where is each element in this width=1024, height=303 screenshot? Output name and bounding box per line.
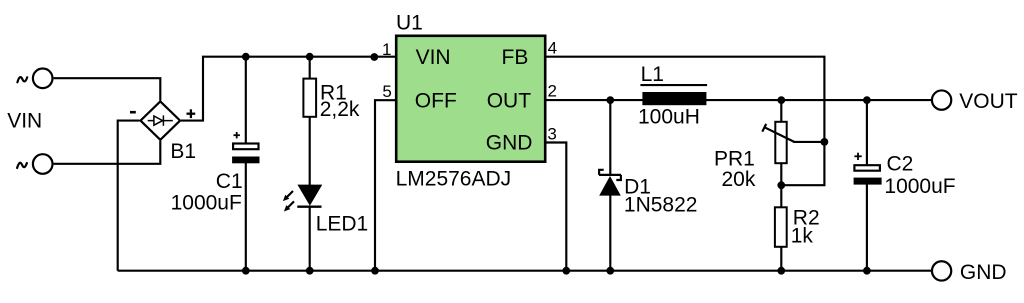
node junction dot PR1 bottom — [777, 181, 785, 189]
label tilde T2 — [17, 163, 27, 168]
wire pin 3 GND to ground rail — [545, 143, 566, 271]
svg-text:OFF: OFF — [415, 89, 457, 112]
node junction dot OUT line C2 — [863, 96, 871, 104]
resistor R1 — [303, 79, 316, 117]
svg-text:20k: 20k — [722, 168, 756, 191]
svg-text:VIN: VIN — [7, 109, 42, 132]
wire C1 branch lower — [245, 163, 247, 271]
inductor L1 — [640, 85, 707, 105]
svg-text:1000uF: 1000uF — [171, 192, 242, 215]
wire R1 branch upper — [309, 57, 311, 79]
capacitor C2 — [854, 153, 882, 185]
node junction dot wiper FB — [821, 138, 829, 146]
wire PR1 wiper link to FB vertical — [793, 141, 824, 143]
node junction dot OUT line PR1 — [777, 96, 785, 104]
wire T2 to bridge bottom corner — [54, 141, 161, 164]
svg-text:LED1: LED1 — [316, 213, 369, 236]
label tilde T1 — [17, 77, 27, 82]
node junction dot rail OFF — [371, 267, 379, 275]
terminal GND — [932, 261, 951, 280]
LED LED1 — [283, 185, 322, 211]
node junction dot top rail C1 — [242, 53, 250, 61]
bridge rectifier B1 — [141, 101, 181, 139]
label plus B1 — [187, 109, 196, 118]
svg-text:1N5822: 1N5822 — [624, 194, 698, 217]
svg-text:100uH: 100uH — [638, 106, 700, 129]
node junction dot rail D1 — [606, 267, 614, 275]
wire ground rail — [118, 270, 932, 272]
svg-text:3: 3 — [547, 125, 556, 144]
wire PR1 bottom to R2 top — [780, 164, 782, 208]
svg-text:4: 4 — [548, 39, 557, 58]
wire D1 cathode to OUT line — [609, 100, 611, 175]
wire C2 top to OUT line — [866, 100, 868, 165]
wire T1 to bridge top corner — [54, 78, 161, 100]
terminal VOUT — [932, 90, 951, 109]
terminal T1 AC input top — [33, 69, 53, 89]
node junction dot rail LED1 — [306, 267, 314, 275]
svg-text:1000uF: 1000uF — [884, 175, 955, 198]
wire pin 4 FB to feedback node — [545, 57, 824, 186]
node junction dot rail C2 — [863, 267, 871, 275]
svg-text:VIN: VIN — [416, 46, 451, 69]
potentiometer PR1 — [762, 122, 794, 163]
wire C1 branch upper — [245, 57, 247, 144]
svg-text:OUT: OUT — [487, 89, 532, 112]
svg-text:FB: FB — [502, 46, 529, 69]
svg-text:C2: C2 — [887, 153, 914, 176]
wire PR1 top to OUT line — [780, 100, 782, 122]
wire C2 bottom to ground rail — [866, 184, 868, 271]
svg-text:2,2k: 2,2k — [320, 98, 360, 121]
svg-text:GND: GND — [486, 132, 533, 155]
terminal T2 AC input bottom — [33, 154, 53, 174]
wire pin 5 OFF to ground rail — [375, 100, 396, 271]
svg-text:U1: U1 — [396, 12, 423, 35]
node junction dot OUT line D1 — [606, 96, 614, 104]
wire pin 2 OUT line to VOUT terminal — [545, 99, 932, 101]
wire R2 bottom to ground rail — [780, 247, 782, 271]
wire bridge minus corner to ground rail — [118, 121, 140, 271]
wire R1 to LED1 — [309, 117, 311, 186]
svg-text:VOUT: VOUT — [959, 90, 1018, 113]
svg-text:L1: L1 — [641, 63, 664, 86]
op-amp U1 regulator box — [396, 36, 545, 162]
node junction dot rail C1 — [242, 267, 250, 275]
svg-text:1: 1 — [382, 40, 391, 59]
svg-text:GND: GND — [960, 261, 1007, 284]
diode D1 schottky — [599, 170, 621, 196]
svg-text:1k: 1k — [791, 225, 814, 248]
node junction dot rail pin3 — [562, 267, 570, 275]
node junction dot at pin 1 — [370, 53, 378, 61]
capacitor C1 — [232, 132, 259, 163]
svg-text:C1: C1 — [216, 170, 243, 193]
wire D1 anode to ground rail — [609, 195, 611, 271]
label minus B1 — [130, 111, 136, 114]
svg-text:LM2576ADJ: LM2576ADJ — [396, 167, 512, 190]
svg-text:2: 2 — [548, 82, 557, 101]
svg-text:B1: B1 — [170, 140, 196, 163]
wire LED1 to ground rail — [309, 208, 311, 271]
resistor R2 — [775, 207, 787, 247]
node junction dot top rail R1 — [306, 53, 314, 61]
node junction dot rail R2 — [777, 267, 785, 275]
svg-text:5: 5 — [382, 82, 391, 101]
wire bridge plus corner up to top rail into pin 1 — [181, 57, 396, 121]
